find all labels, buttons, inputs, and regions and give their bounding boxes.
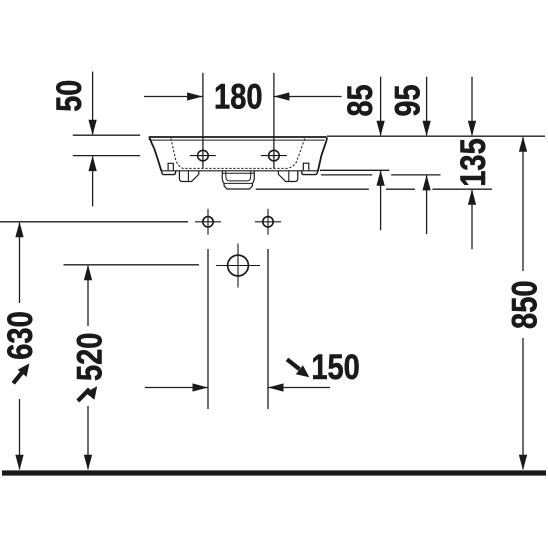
- wire: drain-bottom reference line C part 2: [386, 188, 415, 190]
- arrowhead: 180-dim right: [187, 92, 203, 100]
- wire: 50-dim lower vertical tail: [92, 156, 94, 206]
- left wall fixing hole: [195, 209, 221, 235]
- svg-text:85: 85: [340, 85, 380, 117]
- basin rim top edge: [150, 137, 327, 140]
- arrowhead: 850-dim down: [519, 455, 527, 471]
- wire: feet-bottom reference line B right part: [391, 174, 440, 176]
- wire: 95-dim lower tail: [426, 176, 428, 234]
- wire: drain-bottom reference line C part 1: [256, 188, 369, 190]
- wire: 180-dim right tail: [274, 96, 342, 98]
- wire: 150-dim left extension line: [207, 249, 209, 409]
- ground line: [2, 470, 546, 475]
- wire: 520 top reference line: [64, 264, 200, 266]
- wire: 180-dim left extension line through left faucet hole: [202, 73, 204, 169]
- arrowhead: 520-dim up: [84, 265, 92, 281]
- pointer arrow for 150 label: [287, 359, 309, 377]
- siphon hole: [216, 244, 260, 288]
- svg-text:180: 180: [214, 77, 263, 117]
- right wall fixing hole: [255, 209, 281, 235]
- wire: 180-dim left tail: [144, 96, 203, 98]
- wire: 630 top reference line: [0, 221, 188, 223]
- arrowhead: 135-dim down: [468, 121, 476, 137]
- arrowhead: 135-dim up: [468, 189, 476, 205]
- wire: 150-dim right tail: [268, 387, 330, 389]
- wire: 520-dim lower segment: [87, 406, 89, 469]
- basin right outer wall: [318, 140, 327, 171]
- wire: 135-dim lower tail: [471, 190, 473, 249]
- arrowhead: 85-dim down: [376, 121, 384, 137]
- left bracket: [179, 171, 198, 182]
- right foot: [302, 171, 318, 175]
- svg-text:850: 850: [505, 280, 545, 329]
- basin interior bowl contour (hidden line): [171, 137, 305, 169]
- arrowhead: 50-dim up: [88, 156, 96, 172]
- left faucet hole: [190, 150, 216, 161]
- right mounting clip: [303, 163, 309, 170]
- right faucet hole: [261, 150, 287, 161]
- svg-text:95: 95: [388, 85, 428, 117]
- right bracket inner line: [288, 171, 290, 182]
- drain lip line: [222, 172, 254, 174]
- wire: 850-dim upper segment: [522, 137, 524, 271]
- wire: drain-bottom reference line C part 3: [432, 188, 492, 190]
- pointer arrow for 520 label: [78, 386, 97, 401]
- wire: 50-dim upper reference line: [73, 134, 140, 136]
- arrowhead: 630-dim up: [15, 222, 23, 238]
- wire: 630-dim lower segment: [19, 399, 21, 469]
- wire: 50-dim upper vertical tail: [92, 72, 94, 135]
- left mounting clip: [168, 163, 173, 170]
- left foot: [161, 171, 175, 175]
- arrowhead: 150-dim right: [193, 383, 209, 391]
- svg-text:150: 150: [311, 347, 360, 387]
- wire: 520-dim upper segment: [87, 266, 89, 326]
- arrowhead: 50-dim down: [88, 120, 96, 136]
- svg-text:520: 520: [70, 333, 110, 382]
- wire: 180-dim right extension line through right faucet hole: [273, 73, 275, 169]
- pointer arrow for 630 label: [13, 363, 29, 383]
- wire: 50-dim lower reference line: [73, 155, 140, 157]
- arrowhead: 850-dim up: [519, 136, 527, 152]
- wire: 85-dim upper tail: [380, 77, 382, 136]
- svg-text:630: 630: [0, 311, 40, 360]
- drain inner bowl line: [226, 171, 251, 181]
- arrowhead: 95-dim down: [422, 121, 430, 137]
- svg-text:135: 135: [453, 138, 493, 187]
- arrowhead: 520-dim down: [84, 455, 92, 471]
- wire: feet-bottom reference line B left part: [321, 174, 372, 176]
- basin left outer wall: [150, 139, 162, 171]
- wire: rim-top reference line right: [327, 135, 545, 137]
- wire: 85-dim lower tail: [380, 171, 382, 230]
- left bracket inner line: [187, 171, 189, 182]
- basin rim lower edge line: [150, 139, 324, 141]
- arrowhead: 95-dim up: [422, 175, 430, 191]
- basin bottom edge: [161, 170, 318, 172]
- wire: 135-dim upper tail: [471, 77, 473, 136]
- wire: 850-dim lower segment: [522, 338, 524, 469]
- wire: 150-dim right extension line: [267, 249, 269, 409]
- arrowhead: 150-dim left: [268, 383, 284, 391]
- arrowhead: 85-dim up: [376, 170, 384, 186]
- wire: 150-dim left tail: [145, 387, 208, 389]
- drain step line: [224, 182, 252, 184]
- arrowhead: 180-dim left: [274, 92, 290, 100]
- wire: 630-dim upper segment: [19, 223, 21, 303]
- svg-text:50: 50: [49, 80, 89, 112]
- drain outer outline: [222, 171, 254, 189]
- right bracket: [278, 171, 297, 182]
- arrowhead: 630-dim down: [15, 455, 23, 471]
- wire: basin-bottom reference line A: [320, 169, 389, 171]
- wire: 95-dim upper tail: [426, 77, 428, 136]
